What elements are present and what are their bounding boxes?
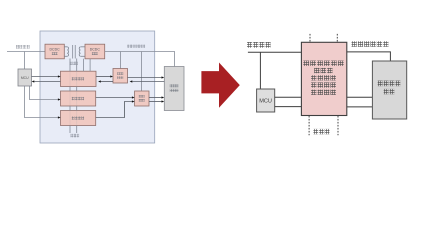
label 隔离带 (left) <box>71 134 80 138</box>
wire isolator to other devices (upper) <box>347 96 373 98</box>
box other devices 其他功能器件 (right) <box>372 61 406 119</box>
wire MCU to isolator (upper) <box>275 96 302 98</box>
label 隔离电源供电 (right) <box>352 41 389 47</box>
wire: rail drop to interface chip B <box>141 52 143 92</box>
svg-text:MCU: MCU <box>259 99 272 105</box>
isolation barrier vertical lines (faint overlay across boxes) <box>70 59 77 134</box>
svg-text:DCDC: DCDC <box>50 48 61 52</box>
wire: isolated supply rail to other-devices box <box>105 52 175 68</box>
wire: rail drop to interface chip A <box>120 52 122 69</box>
arrow into opto2 <box>58 98 61 100</box>
wire chip B to other devices (lower) with arrow <box>149 100 164 102</box>
wire opto3 riser to chip B with arrow <box>96 100 135 117</box>
box optocoupler 2 光耦隔离 <box>61 91 96 106</box>
wire chip A to opto1 with arrow <box>98 80 113 82</box>
wire other devices to chip A with arrow <box>130 80 165 82</box>
box other devices 其他功能器件 (left) <box>164 67 184 111</box>
wire opto1 to chip A with arrow <box>96 75 113 77</box>
wire isolator to other devices (lower) <box>347 106 373 108</box>
wire opto1 to MCU with arrow <box>32 80 61 82</box>
big red transition arrow <box>201 63 239 108</box>
panel background <box>40 31 155 143</box>
box optocoupler 1 光耦隔离 <box>61 71 97 86</box>
isolation barrier dashes below isolator <box>309 116 338 135</box>
svg-text:MCU: MCU <box>21 76 29 80</box>
label 隔离带 (right) <box>313 129 329 134</box>
wire MCU to isolator (lower) <box>275 106 302 108</box>
box integrated isolator 全集成隔离器 <box>301 42 346 115</box>
label 隔离电源供电 (left) <box>127 45 145 48</box>
wire chip A to other devices with arrow <box>128 76 165 78</box>
box interface chip A 接口芯片 <box>113 69 128 84</box>
box MCU (right) <box>257 89 275 112</box>
box interface chip B 接口芯片 <box>135 91 149 106</box>
wire: supply drop to MCU <box>24 52 26 70</box>
box MCU (left) <box>18 69 32 86</box>
box optocoupler 3 光耦隔离 <box>61 111 96 126</box>
label 变压器 <box>70 62 78 65</box>
wire: isolated supply to other devices <box>347 52 391 61</box>
verticals from rectifier into optocoupler 1 <box>83 59 90 71</box>
arrow into opto3 <box>58 116 61 118</box>
label 电源供电 (right) <box>247 42 271 48</box>
wire: MCU down-rail to optocoupler 2 <box>30 86 59 100</box>
wire: supply drop to MCU <box>259 52 261 89</box>
wire opto2 to chip B with arrow <box>96 96 135 98</box>
label 电源供电 (left) <box>16 45 30 49</box>
box DCDC 驱动 <box>45 44 64 59</box>
transformer T1 <box>64 45 85 59</box>
svg-text:DCDC: DCDC <box>90 48 101 52</box>
wire MCU to opto1 with arrow <box>32 75 61 77</box>
wire chip B to other devices (upper) with arrow <box>149 96 164 98</box>
box DCDC 整流 <box>85 44 105 59</box>
wire: MCU down-rail to optocoupler 3 <box>25 86 59 118</box>
wire: supply to integrated isolator <box>248 51 302 53</box>
isolation barrier dashes above isolator <box>310 34 337 42</box>
wire: supply into DCDC drive <box>7 51 45 53</box>
